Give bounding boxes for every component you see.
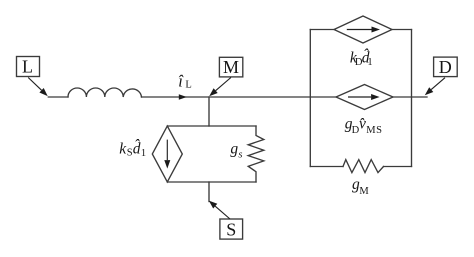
svg-text:1: 1: [367, 57, 372, 68]
arrow shaft inside gD diamond: [348, 96, 371, 98]
svg-text:D: D: [439, 57, 452, 77]
arrowhead D to wire end: [425, 87, 434, 95]
arrowhead M to junction: [209, 88, 218, 96]
svg-text:s: s: [238, 150, 242, 161]
svg-text:d̂: d̂: [133, 140, 141, 157]
svg-text:î: î: [178, 71, 184, 90]
svg-text:M: M: [223, 57, 239, 77]
right network right edge: [411, 30, 413, 167]
arrowhead inside kS diamond: [164, 160, 170, 169]
right network top edge left part: [310, 29, 334, 31]
resistor gs (vertical zigzag with leads): [248, 126, 264, 182]
svg-text:L: L: [22, 56, 33, 76]
source box bottom edge: [167, 181, 256, 183]
arrow line from M box: [216, 78, 231, 91]
svg-text:g: g: [230, 141, 238, 158]
wire node M junction down to source box: [208, 97, 210, 126]
wire left segment before inductor: [48, 96, 68, 98]
right network left edge: [309, 30, 311, 167]
dependent source kS*d1 diamond body: [152, 126, 182, 182]
wire inductor to middle diamond: [142, 96, 337, 98]
arrow shaft inside kS diamond: [166, 140, 168, 161]
arrow line from D box: [431, 78, 445, 90]
dependent source gD*vMS diamond body: [336, 85, 393, 110]
svg-text:M: M: [359, 186, 369, 197]
right network bottom edge right part: [384, 166, 412, 168]
wire stub from source box down to S arrow: [208, 182, 210, 202]
svg-text:S: S: [127, 148, 133, 159]
node D box: [434, 57, 458, 77]
node M box: [219, 57, 242, 77]
svg-text:1: 1: [141, 148, 146, 159]
dependent source kD*d1 diamond body: [334, 16, 392, 43]
arrowhead inside kD diamond: [372, 27, 381, 33]
svg-text:MS: MS: [366, 125, 382, 136]
inductor L1: [68, 88, 142, 97]
arrow shaft inside kD diamond: [347, 29, 372, 31]
right network bottom edge left part: [310, 166, 343, 168]
svg-text:S: S: [226, 219, 236, 239]
arrowhead current iL: [179, 94, 187, 100]
source box top edge: [167, 125, 256, 127]
wire middle diamond to end near D: [393, 96, 427, 98]
arrowhead L to wire: [39, 88, 47, 96]
arrow line from S box: [215, 206, 230, 219]
svg-text:L: L: [185, 80, 191, 91]
node L box: [17, 57, 40, 77]
node S box: [220, 219, 243, 239]
resistor gM zigzag: [343, 160, 384, 173]
arrowhead inside gD diamond: [371, 94, 380, 100]
right network top edge right part: [392, 29, 412, 31]
arrowhead S to stub: [209, 201, 218, 209]
arrow line from L box: [28, 78, 41, 91]
svg-text:v̂: v̂: [359, 115, 366, 132]
